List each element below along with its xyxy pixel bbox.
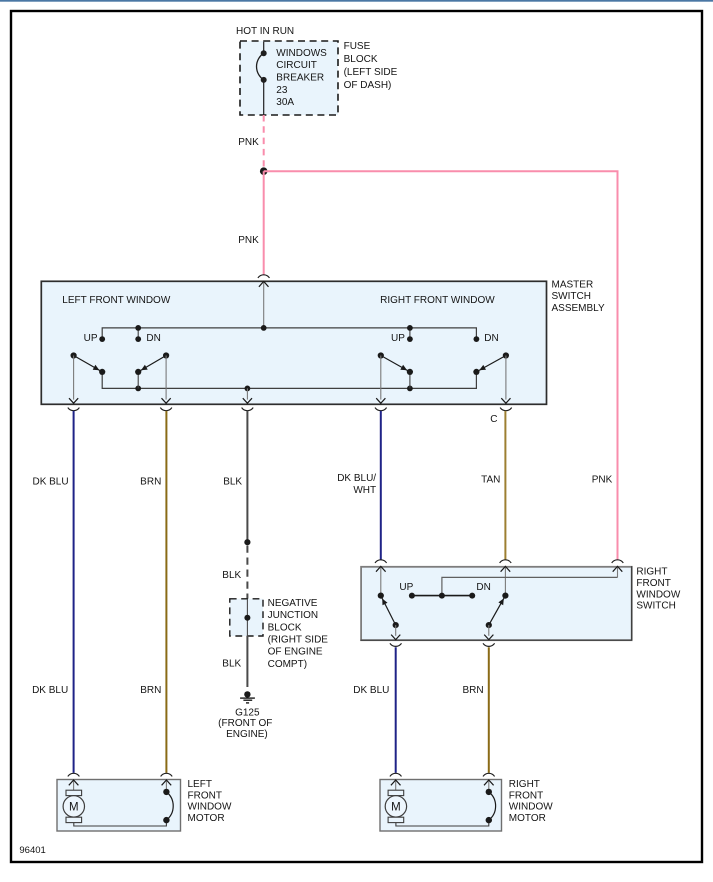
svg-text:G125: G125: [235, 707, 260, 718]
right front window motor box: [380, 780, 502, 832]
svg-text:RIGHT: RIGHT: [509, 779, 540, 790]
svg-text:(FRONT OF: (FRONT OF: [218, 718, 272, 729]
svg-text:CIRCUIT: CIRCUIT: [276, 60, 317, 71]
svg-text:SWITCH: SWITCH: [552, 291, 591, 302]
fuse block (dashed box): [240, 41, 338, 115]
svg-text:DK BLU: DK BLU: [353, 685, 389, 696]
left front window motor box: [57, 780, 181, 832]
left motor M symbol: [63, 790, 84, 822]
svg-text:M: M: [69, 801, 79, 813]
label WINDOWS CIRCUIT BREAKER 23 30A: [276, 48, 327, 108]
right window DN output lead: [501, 356, 510, 404]
wire TAN (master to switch): [504, 411, 506, 560]
svg-text:96401: 96401: [19, 845, 45, 856]
svg-text:(RIGHT SIDE: (RIGHT SIDE: [268, 635, 329, 646]
left window UP wiper: [71, 352, 106, 375]
left motor internal return wire: [74, 820, 167, 826]
svg-text:MASTER: MASTER: [552, 280, 594, 291]
left motor thermal circuit breaker: [163, 789, 173, 824]
svg-text:COMPT): COMPT): [268, 659, 307, 670]
wire PNK to master switch: [263, 171, 265, 275]
right motor thermal circuit breaker: [486, 789, 496, 824]
connectors at right front window switch inputs: [375, 560, 623, 563]
wire DK BLU (switch to right motor): [395, 647, 397, 773]
wire BRN (left, master to motor): [165, 411, 167, 773]
label RIGHT FRONT WINDOW SWITCH: [636, 567, 680, 612]
left window DN wiper stub: [137, 372, 139, 389]
svg-text:ENGINE): ENGINE): [226, 729, 268, 740]
svg-text:DN: DN: [484, 333, 498, 344]
svg-text:PNK: PNK: [238, 235, 259, 246]
svg-text:WINDOWS: WINDOWS: [276, 48, 327, 59]
svg-text:BRN: BRN: [462, 685, 483, 696]
svg-text:BREAKER: BREAKER: [276, 73, 324, 84]
svg-text:HOT IN RUN: HOT IN RUN: [236, 26, 294, 37]
svg-text:MOTOR: MOTOR: [509, 813, 546, 824]
right window DN wiper: [473, 352, 509, 375]
svg-text:BLOCK: BLOCK: [344, 54, 378, 65]
svg-text:RIGHT FRONT WINDOW: RIGHT FRONT WINDOW: [380, 295, 495, 306]
connector at master switch PNK input: [258, 275, 270, 278]
svg-text:BLK: BLK: [222, 658, 241, 669]
svg-text:MOTOR: MOTOR: [188, 813, 225, 824]
svg-text:FUSE: FUSE: [344, 41, 371, 52]
svg-text:JUNCTION: JUNCTION: [268, 610, 319, 621]
svg-text:DK BLU: DK BLU: [32, 685, 68, 696]
svg-text:M: M: [391, 801, 401, 813]
right window UP contact: [407, 325, 413, 342]
left window UP contact: [99, 336, 105, 342]
wire DK BLU (left, master to motor): [73, 411, 75, 773]
label MASTER SWITCH ASSEMBLY: [552, 280, 605, 314]
label RIGHT FRONT WINDOW MOTOR: [509, 779, 553, 824]
right front window switch box: [361, 567, 632, 640]
svg-text:WHT: WHT: [353, 485, 376, 496]
left window UP output lead: [69, 356, 78, 404]
junction block node: [244, 615, 250, 621]
svg-text:OF ENGINE: OF ENGINE: [268, 647, 323, 658]
master feed bus: [102, 328, 476, 339]
svg-text:SWITCH: SWITCH: [636, 601, 675, 612]
svg-text:RIGHT: RIGHT: [636, 567, 667, 578]
wire BLK lower segment: [246, 636, 248, 687]
right window UP wiper: [378, 352, 413, 375]
svg-text:(LEFT SIDE: (LEFT SIDE: [344, 67, 398, 78]
svg-text:DN: DN: [146, 333, 160, 344]
left window DN contact: [135, 325, 141, 342]
switch input arrow (DK BLU/WHT): [376, 566, 386, 595]
feed junction node: [261, 325, 267, 331]
connectors at right front window switch outputs: [390, 643, 495, 646]
svg-text:UP: UP: [391, 333, 405, 344]
wire PNK branch to right front window switch: [264, 171, 618, 559]
label FUSE BLOCK (LEFT SIDE OF DASH): [344, 41, 398, 91]
svg-text:23: 23: [276, 85, 288, 96]
svg-text:BLOCK: BLOCK: [268, 622, 302, 633]
svg-text:TAN: TAN: [481, 474, 500, 485]
wire BLK upper segment: [246, 411, 248, 542]
switch UP output lead: [391, 625, 400, 640]
svg-text:BLK: BLK: [223, 477, 242, 488]
switch UP wiper: [378, 593, 399, 629]
label DK BLU/WHT: [337, 473, 376, 496]
wire DK BLU/WHT (master to switch): [380, 411, 382, 560]
svg-text:UP: UP: [399, 582, 413, 593]
svg-text:WINDOW: WINDOW: [188, 802, 232, 813]
right window UP wiper stub: [409, 372, 411, 389]
switch feed line: [442, 577, 618, 595]
svg-text:C: C: [490, 414, 497, 425]
wire BRN (switch to right motor): [488, 647, 490, 773]
svg-text:LEFT: LEFT: [188, 779, 212, 790]
svg-text:FRONT: FRONT: [636, 578, 670, 589]
switch contact bar: [412, 595, 472, 597]
splice on BLK: [244, 539, 250, 545]
svg-text:OF DASH): OF DASH): [344, 80, 392, 91]
wire BLK dashed segment: [246, 546, 248, 599]
connectors at right motor inputs: [390, 773, 495, 776]
switch DN wiper: [486, 593, 509, 629]
svg-text:ASSEMBLY: ASSEMBLY: [552, 303, 605, 314]
ground G125: [240, 691, 255, 703]
svg-text:NEGATIVE: NEGATIVE: [268, 598, 318, 609]
svg-text:BRN: BRN: [140, 477, 161, 488]
wire through junction block: [246, 599, 248, 636]
left window DN output lead: [162, 356, 171, 404]
svg-text:DN: DN: [476, 582, 490, 593]
svg-text:WINDOW: WINDOW: [509, 802, 553, 813]
svg-text:LEFT FRONT WINDOW: LEFT FRONT WINDOW: [62, 295, 171, 306]
svg-text:BRN: BRN: [140, 685, 161, 696]
switch input arrow (TAN): [501, 566, 511, 595]
svg-text:PNK: PNK: [238, 137, 259, 148]
label NEGATIVE JUNCTION BLOCK (RIGHT SIDE OF ENGINE COMPT): [268, 598, 329, 670]
left window DN wiper: [135, 352, 169, 375]
negative junction block (dashed box): [230, 599, 263, 636]
right window UP output lead: [376, 356, 385, 404]
switch input arrow (PNK feed): [613, 566, 623, 577]
svg-text:BLK: BLK: [222, 570, 241, 581]
right motor input arrow (DK BLU): [391, 780, 401, 790]
left motor input arrow (BRN): [162, 780, 172, 792]
svg-text:FRONT: FRONT: [509, 790, 543, 801]
right motor input arrow (BRN): [484, 780, 494, 792]
wire PNK fusible dashed segment: [263, 115, 265, 167]
switch DN output lead: [484, 625, 493, 640]
label LEFT FRONT WINDOW MOTOR: [188, 779, 232, 824]
connectors at left motor inputs: [68, 773, 172, 776]
label G125 (FRONT OF ENGINE): [218, 707, 272, 740]
svg-text:PNK: PNK: [592, 474, 613, 485]
left motor input arrow (DK BLU): [69, 780, 79, 790]
ground bus output lead (BLK): [243, 388, 252, 403]
svg-text:30A: 30A: [276, 97, 294, 108]
circuit breaker 23 30A: [257, 42, 267, 115]
right window DN contact: [474, 336, 480, 342]
right motor M symbol: [385, 790, 406, 822]
junction splice dot: [260, 167, 268, 175]
svg-text:DK BLU: DK BLU: [32, 477, 68, 488]
svg-text:FRONT: FRONT: [188, 790, 222, 801]
svg-text:UP: UP: [84, 333, 98, 344]
connectors at master switch outputs: [68, 408, 512, 411]
right motor internal return wire: [396, 820, 489, 826]
master switch assembly box: [41, 281, 546, 404]
svg-text:DK BLU/: DK BLU/: [337, 473, 376, 484]
PNK input arrow into master switch: [259, 281, 269, 328]
svg-text:WINDOW: WINDOW: [636, 589, 680, 600]
master ground bus: [102, 372, 476, 389]
